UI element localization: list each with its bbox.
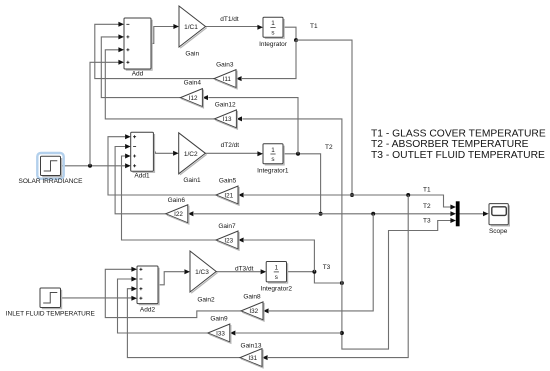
wire node T1 to right then down to T1 bus [296,40,352,195]
wire T3 riser up to Gain12 input [242,119,342,283]
integrator block Integrator [265,19,284,38]
wire T3 junction to Gain9 input [236,332,342,334]
node T3 to Gain9 junction [340,331,344,335]
svg-text:Gain9: Gain9 [210,316,228,323]
svg-text:T2 - ABSORBER TEMPERATURE: T2 - ABSORBER TEMPERATURE [371,139,529,150]
integrator block Integrator2 [268,263,288,283]
svg-text:Integrator2: Integrator2 [261,286,293,293]
svg-text:Gain8: Gain8 [243,294,261,301]
svg-text:I11: I11 [223,76,232,83]
svg-text:Gain1: Gain1 [183,177,201,184]
svg-text:1/C2: 1/C2 [184,151,198,158]
wire T1 bus to Gain5 input [244,194,352,196]
wire Gain output dT1/dt to Integrator [206,26,258,28]
svg-text:s: s [275,274,278,281]
svg-text:T2: T2 [423,203,431,210]
gain block Gain7 I23 [216,231,238,249]
svg-text:Gain2: Gain2 [197,297,215,304]
node T2 bus right junction [371,212,375,216]
gain block Gain2 1/C3 [190,251,216,292]
wire Gain9 I33 output to Add2 input 2 [118,279,208,333]
svg-text:T1: T1 [423,187,431,194]
svg-text:1/C1: 1/C1 [184,24,198,31]
wire Gain1 output dT2/dt to Integrator1 [205,152,257,154]
wire Gain5 I21 output to Add1 input 1 [108,137,216,195]
svg-text:I21: I21 [224,192,233,199]
svg-text:I31: I31 [248,355,257,362]
svg-text:I33: I33 [216,330,225,337]
svg-text:1: 1 [271,20,275,27]
gain block Gain13 I31 [240,349,262,367]
svg-text:T1: T1 [310,23,318,30]
svg-text:T3: T3 [323,264,331,271]
wire Gain2 output dT3/dt to Integrator2 [216,271,261,273]
node T1 bus left junction [350,193,354,197]
svg-text:Gain3: Gain3 [216,62,234,69]
svg-text:Gain13: Gain13 [241,342,262,349]
wire Gain6 I22 output to Add1 input 2 [115,147,166,214]
wire T2 bus to Mux input 2 [321,213,451,215]
gain block Gain3 I11 [214,70,236,88]
gain block Gain8 I32 [241,302,263,320]
wire T1 branch down to Gain13 input [268,195,408,358]
svg-text:SOLAR IRRADIANCE: SOLAR IRRADIANCE [19,178,84,185]
svg-text:s: s [271,156,274,163]
svg-text:Add2: Add2 [140,307,156,314]
svg-text:I32: I32 [249,308,258,315]
wire node T2 up to Gain4 input [208,98,298,154]
svg-text:1: 1 [271,147,275,154]
step source INLET FLUID TEMPERATURE [42,290,62,309]
svg-text:Gain: Gain [185,50,199,57]
gain block Gain5 I21 [216,186,238,204]
wire Gain7 I23 output to Add1 input 3 [122,156,217,240]
wire node T3 up to Gain7 input [244,240,314,272]
svg-text:T3: T3 [423,217,431,224]
svg-text:I12: I12 [189,95,198,102]
wire Gain13 I31 output to Add2 input 3 [127,289,240,358]
svg-text:dT3/dt: dT3/dt [235,265,254,272]
wire Add2 output to Gain2 input [158,272,184,285]
gain block Gain9 I33 [208,324,230,342]
svg-text:T2: T2 [325,144,333,151]
svg-text:Integrator1: Integrator1 [257,168,289,175]
wire Integrator output to node T1 [283,27,296,40]
svg-text:Gain5: Gain5 [219,178,237,185]
wire Integrator2 output to node T3 [287,272,342,283]
wire T2 branch down to Gain8 input [269,214,373,311]
svg-text:Integrator: Integrator [259,41,288,48]
svg-text:I22: I22 [174,211,183,218]
svg-text:s: s [271,29,274,36]
svg-text:Gain12: Gain12 [215,101,236,108]
scope block Scope [491,205,510,226]
node T2 junction [296,152,300,156]
svg-text:Gain7: Gain7 [218,223,236,230]
node T1 bus right junction [406,193,410,197]
node T3 junction [312,270,316,274]
gain block Gain1 1/C2 [179,133,206,174]
integrator block Integrator1 [265,146,284,165]
wire Add1 output to Gain1 input [153,152,173,153]
svg-text:Gain6: Gain6 [168,197,186,204]
wire T3 riser down and around to Mux input 3 [342,221,451,350]
node T2 bus left junction [319,212,323,216]
node T1 junction [294,38,298,42]
step source SOLAR IRRADIANCE [37,153,63,179]
svg-text:I13: I13 [223,116,232,123]
wire Gain8 I32 output to Add2 input 1 [105,269,241,317]
node solar irradiance junction [88,164,92,168]
sum block Add [126,20,152,70]
node T3 riser junction [340,281,344,285]
gain block Gain12 I13 [214,110,236,128]
wire Gain3 I11 output to Add input 1 [95,24,214,78]
svg-text:I23: I23 [224,237,233,244]
svg-text:dT2/dt: dT2/dt [221,142,240,149]
wire Gain12 I13 output to Add input 3 [105,50,214,119]
wire Step SOLAR IRRADIANCE output to Add1 input 4 [61,165,126,167]
svg-text:dT1/dt: dT1/dt [220,16,239,23]
sum block Add2 [139,268,159,305]
gain block Gain 1/C1 [179,6,206,47]
svg-text:Scope: Scope [489,228,508,235]
wire solar junction up to Add input 4 [90,62,119,166]
svg-text:Add: Add [132,70,144,77]
wire node T1 down to Gain3 input [242,40,296,79]
svg-text:T1 - GLASS COVER TEMPERATURE: T1 - GLASS COVER TEMPERATURE [371,128,546,139]
wire Mux output to Scope [460,213,484,215]
svg-text:INLET FLUID TEMPERATURE: INLET FLUID TEMPERATURE [6,311,96,318]
svg-text:T3 - OUTLET FLUID TEMPERATURE: T3 - OUTLET FLUID TEMPERATURE [371,150,545,161]
wire Gain4 I12 output to Add input 2 [101,37,182,98]
sum block Add1 [133,134,155,172]
svg-text:1/C3: 1/C3 [195,269,209,276]
gain block Gain6 I22 [166,205,188,223]
wire Step INLET FLUID TEMPERATURE output to Add2 input 4 [61,297,132,299]
wire Integrator1 output to node T2 [283,154,321,214]
svg-text:Gain4: Gain4 [184,80,202,87]
wire T1 bus to Mux input 1 [352,195,451,207]
gain block Gain4 I12 [180,89,202,107]
svg-text:Add1: Add1 [134,173,150,180]
mux block [456,201,460,226]
wire Add output to Gain input [151,27,174,44]
svg-text:1: 1 [275,265,279,272]
wire T2 bus to Gain6 input [194,213,321,215]
